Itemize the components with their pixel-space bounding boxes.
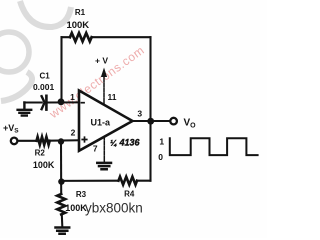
node junction dot (R3 / R4)	[58, 178, 64, 184]
svg-text:1: 1	[159, 137, 164, 147]
wire pin1 row	[24, 101, 79, 103]
svg-text:R4: R4	[124, 189, 135, 198]
capacitor C1	[45, 96, 48, 110]
svg-text:+VS: +VS	[3, 123, 19, 135]
wire R4 row	[61, 180, 150, 182]
svg-text:100K: 100K	[66, 20, 89, 31]
node junction dot (R2 / R3)	[58, 138, 64, 144]
svg-text:0.001: 0.001	[33, 82, 55, 92]
ground (below R3)	[56, 228, 70, 234]
wire left feedback vertical	[60, 37, 62, 100]
supply arrow head +V	[101, 68, 107, 78]
svg-text:+ V: + V	[95, 56, 108, 66]
op-amp plus sign (pin 2)	[81, 136, 87, 142]
svg-text:C1: C1	[39, 72, 50, 81]
svg-text:U1-a: U1-a	[91, 117, 112, 127]
op-amp pin 7 line	[103, 137, 105, 162]
wire input row	[18, 139, 79, 142]
input terminal +Vs	[11, 138, 18, 145]
svg-text:¼ 4136: ¼ 4136	[110, 138, 140, 148]
svg-text:11: 11	[108, 92, 117, 102]
svg-text:R3: R3	[76, 190, 87, 199]
svg-text:VO: VO	[184, 118, 197, 130]
wire top feedback horizontal	[62, 36, 151, 38]
svg-text:R2: R2	[35, 149, 46, 158]
svg-text:0: 0	[158, 152, 163, 162]
resistor R1	[70, 33, 92, 41]
wire right feedback vertical	[149, 37, 151, 181]
svg-text:ybx800kn: ybx800kn	[85, 201, 143, 216]
wire R3 to ground	[61, 214, 64, 226]
ground (pin 7)	[97, 163, 111, 169]
svg-text:7: 7	[93, 144, 98, 154]
svg-text:R1: R1	[75, 8, 86, 17]
node junction dot (C1 / pin1)	[58, 98, 65, 105]
wire output row	[133, 120, 170, 122]
svg-text:100K: 100K	[33, 160, 55, 170]
resistor R2	[37, 137, 50, 145]
gray watermark swirl top-left	[0, 1, 71, 101]
op-amp U1 triangle	[79, 91, 133, 151]
svg-text:3: 3	[137, 109, 142, 119]
svg-text:2: 2	[71, 128, 76, 138]
op-amp U1-a supply pin 11 line	[103, 74, 105, 105]
output waveform square wave	[170, 138, 258, 155]
ground (C1 left)	[18, 103, 32, 116]
op-amp minus sign (pin 1)	[81, 102, 85, 104]
resistor R3	[57, 194, 65, 214]
node junction dot (output)	[147, 118, 154, 125]
resistor R4	[119, 177, 138, 185]
wire R3 branch vertical	[60, 142, 62, 195]
output terminal Vo	[170, 118, 177, 125]
svg-text:100K: 100K	[65, 203, 87, 213]
svg-text:1: 1	[70, 92, 75, 102]
